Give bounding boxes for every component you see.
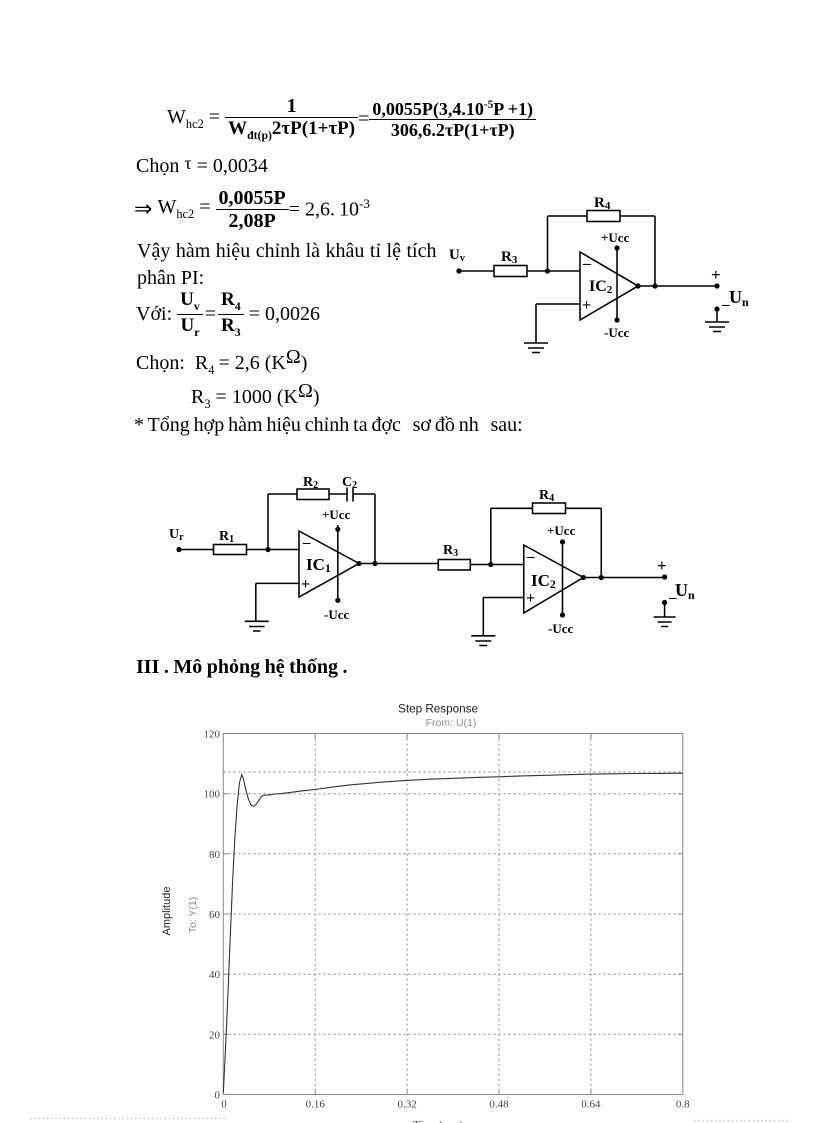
- svg-text:+Ucc: +Ucc: [601, 230, 630, 245]
- svg-text:Ur: Ur: [169, 527, 184, 543]
- svg-text:R1: R1: [219, 529, 234, 545]
- svg-text:R3: R3: [443, 543, 458, 559]
- svg-text:R2: R2: [303, 475, 318, 491]
- svg-text:0.16: 0.16: [306, 1099, 326, 1111]
- svg-text:20: 20: [209, 1029, 221, 1041]
- svg-text:From: U(1): From: U(1): [426, 717, 477, 729]
- svg-text:R4: R4: [594, 195, 611, 212]
- svg-text:+: +: [301, 576, 310, 593]
- svg-text:R3: R3: [501, 249, 518, 266]
- svg-text:To: Y(1): To: Y(1): [187, 897, 199, 934]
- svg-text:Uv: Uv: [449, 247, 465, 264]
- svg-text:0.32: 0.32: [397, 1099, 416, 1111]
- svg-text:+: +: [711, 265, 721, 284]
- svg-text:+: +: [582, 297, 591, 314]
- svg-text:0.8: 0.8: [676, 1099, 690, 1111]
- svg-text:120: 120: [204, 729, 221, 741]
- svg-text:IC2: IC2: [589, 278, 613, 296]
- svg-text:–: –: [526, 549, 535, 565]
- svg-text:Time (sec.): Time (sec.): [413, 1119, 463, 1123]
- svg-text:+Ucc: +Ucc: [322, 507, 351, 522]
- svg-text:Un: Un: [729, 287, 749, 309]
- svg-text:0: 0: [215, 1090, 221, 1102]
- svg-text:+: +: [657, 556, 667, 575]
- svg-text:+: +: [526, 590, 535, 607]
- svg-text:-Ucc: -Ucc: [324, 607, 349, 622]
- svg-text:Amplitude: Amplitude: [161, 887, 173, 936]
- svg-text:100: 100: [204, 789, 221, 801]
- svg-text:–: –: [302, 535, 311, 551]
- svg-text:+Ucc: +Ucc: [547, 523, 576, 538]
- svg-text:0.64: 0.64: [581, 1099, 601, 1111]
- svg-text:C2: C2: [342, 475, 357, 491]
- svg-text:R4: R4: [539, 488, 554, 504]
- svg-text:-Ucc: -Ucc: [548, 621, 573, 636]
- svg-text:Step Response: Step Response: [398, 703, 478, 716]
- svg-text:60: 60: [209, 909, 221, 921]
- svg-text:-Ucc: -Ucc: [604, 325, 629, 340]
- svg-text:–: –: [582, 255, 592, 272]
- svg-text:40: 40: [209, 969, 221, 981]
- svg-text:0: 0: [221, 1099, 227, 1111]
- svg-text:0.48: 0.48: [489, 1099, 509, 1111]
- svg-text:80: 80: [209, 849, 221, 861]
- svg-text:Un: Un: [675, 580, 695, 602]
- svg-text:IC1: IC1: [306, 555, 331, 575]
- svg-text:IC2: IC2: [531, 571, 556, 591]
